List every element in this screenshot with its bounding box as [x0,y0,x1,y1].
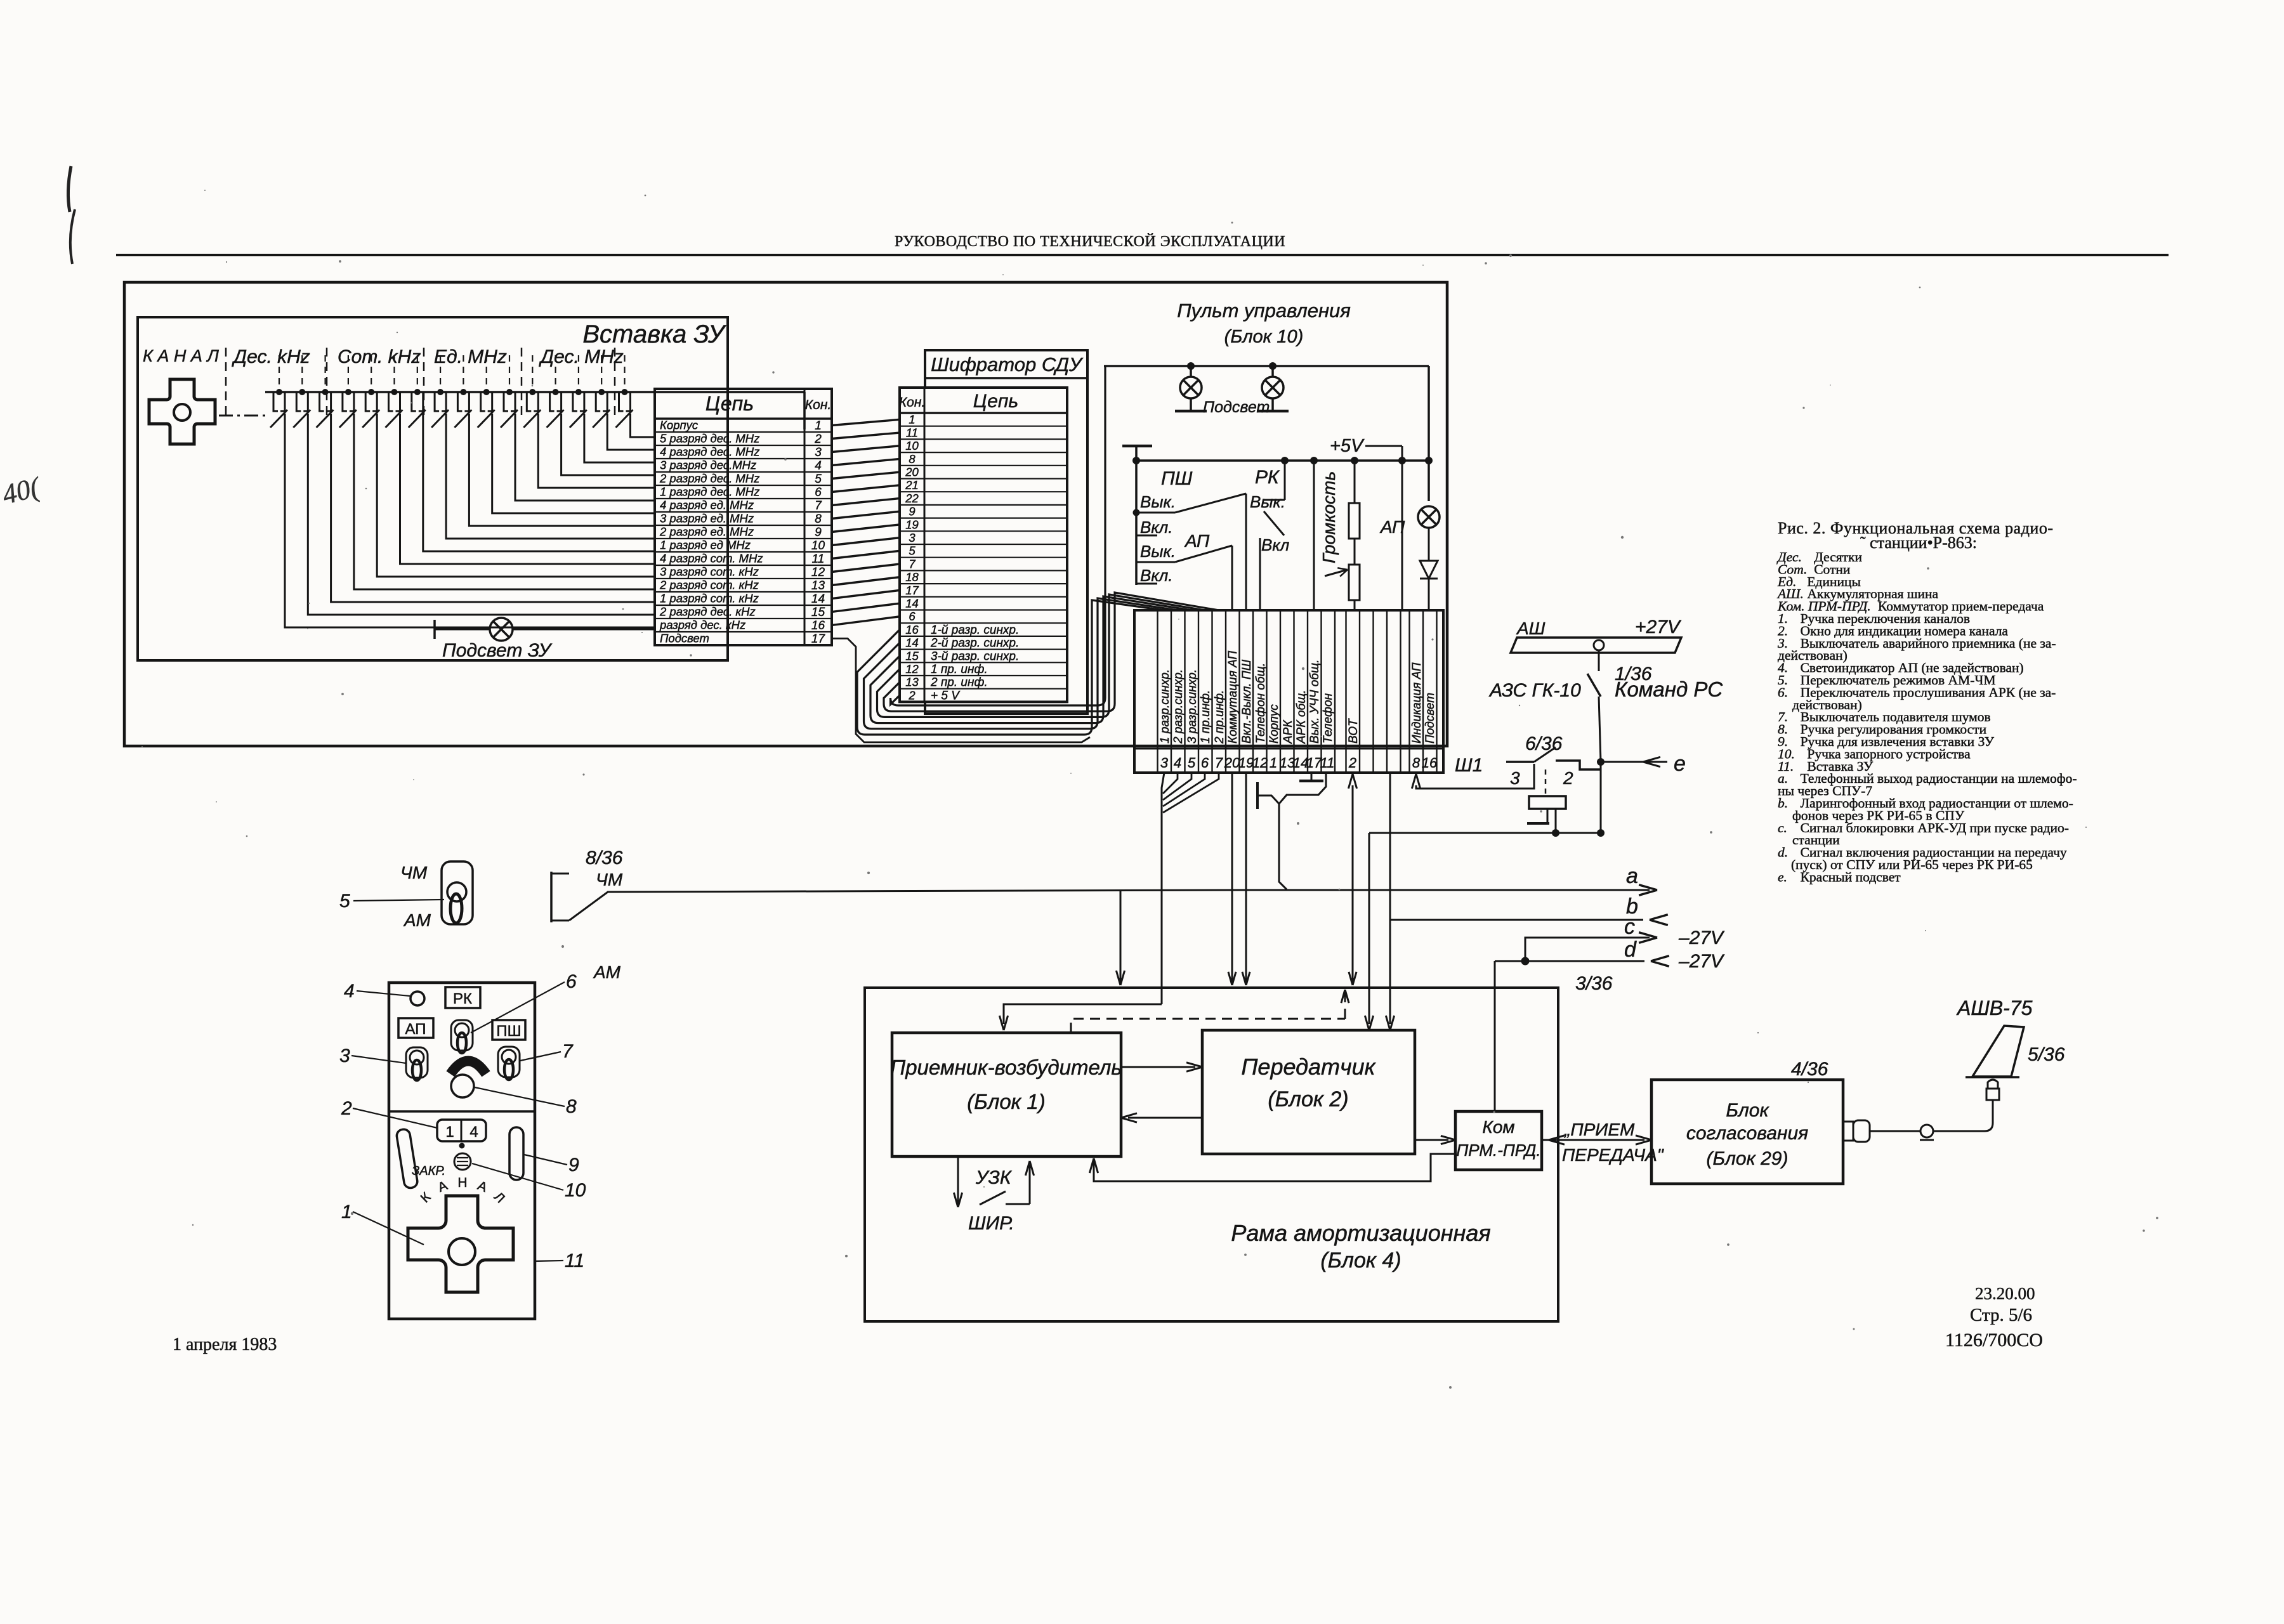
svg-text:2: 2 [908,688,916,702]
svg-text:3: 3 [909,531,916,544]
svg-text:9: 9 [815,526,822,539]
svg-text:6: 6 [1201,755,1209,771]
svg-text:19: 19 [905,518,919,531]
svg-text:3 разряд ед. МНz: 3 разряд ед. МНz [660,512,754,525]
svg-text:Ш1: Ш1 [1455,755,1483,776]
svg-text:1: 1 [445,1123,454,1141]
svg-text:e: e [1674,752,1686,776]
svg-text:Вык.: Вык. [1140,492,1176,511]
svg-text:2 пр. инф.: 2 пр. инф. [930,676,988,690]
svg-text:1 пр. инф.: 1 пр. инф. [931,663,988,676]
svg-text:5: 5 [909,544,916,558]
svg-text:АЗС ГК-10: АЗС ГК-10 [1488,680,1581,701]
svg-text:+ 5 V: + 5 V [931,689,961,702]
svg-text:6: 6 [909,610,916,623]
svg-text:Вкл.-Выкл. ПШ: Вкл.-Выкл. ПШ [1240,659,1254,743]
svg-text:АШ: АШ [1516,619,1546,638]
svg-text:9: 9 [909,505,915,518]
svg-text:4 разряд сот. МНz: 4 разряд сот. МНz [660,552,763,565]
svg-text:c.: c. [1778,820,1787,835]
svg-text:13: 13 [811,579,825,593]
svg-text:Красный подсвет: Красный подсвет [1801,869,1901,884]
svg-text:7: 7 [909,557,916,570]
svg-text:18: 18 [905,570,919,584]
svg-text:3: 3 [1160,755,1169,771]
svg-text:3/36: 3/36 [1575,973,1613,994]
svg-text:10: 10 [811,539,825,553]
svg-text:1: 1 [815,419,822,433]
svg-text:13: 13 [905,676,919,689]
svg-text:АШВ-75: АШВ-75 [1956,997,2033,1019]
svg-text:Передатчик: Передатчик [1241,1054,1376,1080]
svg-text:Вык.: Вык. [1140,542,1176,561]
svg-text:Индикация АП: Индикация АП [1410,662,1424,743]
svg-text:8: 8 [566,1096,577,1117]
svg-text:Кон.: Кон. [805,398,831,412]
svg-text:6: 6 [815,486,822,499]
svg-text:16: 16 [811,619,825,632]
svg-text:22: 22 [905,492,919,505]
svg-text:–27V: –27V [1678,927,1725,948]
svg-text:15: 15 [811,606,825,619]
svg-text:Дес. MHz: Дес. MHz [539,346,624,367]
svg-text:Вык.: Вык. [1250,492,1285,511]
svg-text:2: 2 [341,1098,352,1119]
svg-text:5: 5 [1188,755,1196,771]
svg-text:–27V: –27V [1678,951,1725,972]
svg-text:АП: АП [1379,517,1405,537]
svg-text:b.: b. [1778,796,1788,811]
svg-text:21: 21 [905,478,919,492]
svg-text:10: 10 [565,1180,586,1201]
svg-text:ПЕРЕДАЧА": ПЕРЕДАЧА" [1562,1145,1664,1165]
svg-text:Подсвет: Подсвет [660,632,709,645]
svg-text:12: 12 [1252,755,1268,771]
svg-text:1 пр.инф.: 1 пр.инф. [1199,690,1212,743]
svg-text:Цепь: Цепь [706,392,754,415]
svg-text:˜ станции•Р-863:: ˜ станции•Р-863: [1860,534,1977,552]
svg-text:6: 6 [566,971,577,992]
svg-text:Н: Н [457,1175,467,1190]
svg-text:Корпус: Корпус [1268,704,1281,743]
svg-text:Вставка ЗУ: Вставка ЗУ [582,320,726,348]
svg-text:1 разр.синхр.: 1 разр.синхр. [1158,669,1172,743]
svg-text:Кон.: Кон. [899,395,925,410]
svg-text:Телефон общ.: Телефон общ. [1254,663,1268,743]
svg-text:3: 3 [1510,768,1520,788]
svg-text:2 разряд ед. МНz: 2 разряд ед. МНz [659,525,754,539]
svg-text:3: 3 [815,446,822,459]
svg-text:разряд дес. кНz: разряд дес. кНz [659,619,745,632]
svg-text:12: 12 [905,662,919,676]
svg-text:1126/700СО: 1126/700СО [1945,1330,2043,1351]
svg-text:5 разряд дес. МНz: 5 разряд дес. МНz [660,432,759,445]
svg-text:11: 11 [565,1250,584,1271]
svg-text:3 разр.синхр.: 3 разр.синхр. [1186,669,1199,743]
svg-text:1: 1 [341,1202,352,1222]
svg-text:3: 3 [339,1045,350,1066]
svg-text:4 разряд дес. МНz: 4 разряд дес. МНz [660,445,759,459]
svg-text:2 разряд сот. кНz: 2 разряд сот. кНz [659,579,759,592]
svg-text:1 апреля 1983: 1 апреля 1983 [173,1335,277,1354]
svg-text:Сот. kHz: Сот. kHz [338,346,421,367]
svg-text:+27V: +27V [1635,617,1682,638]
svg-text:АП: АП [405,1021,426,1038]
svg-text:Пульт управления: Пульт управления [1177,299,1351,322]
svg-text:„ПРИЕМ: „ПРИЕМ [1564,1120,1635,1139]
svg-text:Телефон: Телефон [1322,693,1335,743]
svg-text:3 разряд сот. кНz: 3 разряд сот. кНz [660,565,759,579]
svg-text:Стр. 5/6: Стр. 5/6 [1970,1305,2032,1325]
svg-text:5/36: 5/36 [2028,1044,2065,1065]
svg-text:3-й разр. синхр.: 3-й разр. синхр. [931,650,1019,663]
svg-text:1 разряд ед МНz: 1 разряд ед МНz [660,539,751,552]
svg-text:12: 12 [811,566,825,579]
svg-text:8: 8 [815,513,822,526]
svg-text:20: 20 [905,466,919,479]
svg-text:АРК: АРК [1282,719,1295,744]
svg-text:11: 11 [1320,755,1335,771]
svg-text:ЗАКР.: ЗАКР. [412,1164,445,1178]
svg-text:ПРМ.-ПРД.: ПРМ.-ПРД. [1456,1141,1540,1160]
svg-text:3 разряд дес.МНz: 3 разряд дес.МНz [660,459,756,472]
svg-text:2 пр.инф.: 2 пр.инф. [1213,690,1226,744]
svg-text:7: 7 [562,1041,574,1062]
svg-text:4/36: 4/36 [1791,1059,1828,1080]
svg-text:5: 5 [815,473,822,486]
svg-text:8/36: 8/36 [586,848,623,868]
svg-text:ПШ: ПШ [496,1023,521,1040]
svg-text:a: a [1626,864,1638,888]
svg-text:4: 4 [344,981,355,1002]
svg-text:ШИР.: ШИР. [968,1213,1014,1234]
svg-text:17: 17 [905,584,919,597]
svg-text:1-й разр. синхр.: 1-й разр. синхр. [931,624,1019,637]
svg-text:1 разряд дес. МНz: 1 разряд дес. МНz [660,485,759,499]
svg-text:1: 1 [1270,755,1277,771]
svg-text:Ед. MHz: Ед. MHz [434,346,507,367]
svg-text:К А Н А Л: К А Н А Л [143,346,219,365]
svg-text:Коммутация АП: Коммутация АП [1226,651,1240,743]
svg-text:ВОТ: ВОТ [1347,718,1360,743]
svg-text:ЧМ: ЧМ [400,863,428,882]
svg-text:РУКОВОДСТВО ПО ТЕХНИЧЕСКОЙ ЭКС: РУКОВОДСТВО ПО ТЕХНИЧЕСКОЙ ЭКСПЛУАТАЦИИ [895,233,1285,250]
svg-text:Корпус: Корпус [660,419,699,432]
svg-text:Вкл.: Вкл. [1140,518,1173,537]
svg-text:2 разр.синхр.: 2 разр.синхр. [1172,669,1185,744]
svg-text:Команд РС: Команд РС [1615,678,1723,701]
svg-text:Ком: Ком [1482,1117,1514,1137]
svg-text:Вкл: Вкл [1261,535,1290,554]
svg-text:2 разряд дес. кНz: 2 разряд дес. кНz [659,605,756,619]
svg-text:Подсвет ЗУ: Подсвет ЗУ [442,640,553,661]
svg-text:15: 15 [905,649,919,662]
svg-text:(Блок 1): (Блок 1) [967,1090,1046,1113]
svg-text:17: 17 [811,632,826,646]
svg-text:8: 8 [1412,755,1421,771]
svg-text:7: 7 [815,499,822,513]
svg-text:11: 11 [906,426,918,439]
svg-text:Громкость: Громкость [1319,471,1339,563]
svg-text:d: d [1624,938,1637,962]
svg-text:Вых. УЧЧ общ.: Вых. УЧЧ общ. [1308,660,1322,743]
svg-text:АМ: АМ [403,910,431,930]
svg-text:5: 5 [339,891,350,912]
svg-text:6/36: 6/36 [1525,733,1563,754]
svg-text:14: 14 [905,636,919,650]
svg-text:4: 4 [1174,755,1181,771]
svg-text:d.: d. [1778,845,1788,860]
svg-text:2 разряд дес. МНz: 2 разряд дес. МНz [659,472,759,485]
svg-text:РК: РК [1255,467,1280,488]
svg-text:9: 9 [568,1155,579,1175]
svg-text:4 разряд ед. МНz: 4 разряд ед. МНz [660,499,754,512]
svg-text:2: 2 [814,433,822,446]
svg-text:+5V: +5V [1330,436,1365,456]
svg-text:Рама амортизационная: Рама амортизационная [1231,1220,1490,1246]
svg-text:Шифратор СДУ: Шифратор СДУ [931,353,1084,376]
svg-text:7: 7 [1215,755,1223,771]
svg-text:согласования: согласования [1686,1123,1808,1144]
svg-text:c: c [1624,915,1635,939]
svg-text:4: 4 [469,1123,478,1141]
svg-text:ЧМ: ЧМ [596,870,623,889]
svg-text:Вкл.: Вкл. [1140,566,1173,585]
svg-text:Дес. kHz: Дес. kHz [232,346,310,367]
svg-text:(Блок 29): (Блок 29) [1707,1148,1788,1169]
svg-text:1: 1 [909,413,915,426]
svg-text:Сигнал блокировки АРК-УД при: Сигнал блокировки АРК-УД при пуске радио… [1801,820,2069,835]
svg-text:Приемник-возбудитель: Приемник-возбудитель [890,1056,1122,1079]
svg-text:2: 2 [1563,768,1573,788]
svg-text:14: 14 [811,593,825,606]
svg-text:11: 11 [812,553,825,566]
svg-text:РК: РК [453,990,472,1007]
svg-text:10: 10 [905,439,919,452]
svg-text:4: 4 [815,459,822,473]
svg-text:УЗК: УЗК [975,1167,1013,1188]
svg-text:16: 16 [905,623,919,636]
svg-text:АМ: АМ [593,962,621,982]
svg-text:ПШ: ПШ [1161,468,1193,489]
svg-text:(Блок 2): (Блок 2) [1268,1087,1348,1111]
svg-text:(Блок 10): (Блок 10) [1224,327,1304,347]
svg-text:16: 16 [1422,755,1438,771]
svg-text:1 разряд сот. кНz: 1 разряд сот. кНz [660,592,759,605]
svg-text:e.: e. [1778,869,1787,884]
svg-text:6.: 6. [1778,684,1788,700]
svg-text:Цепь: Цепь [973,391,1018,412]
svg-text:19: 19 [1238,755,1254,771]
svg-text:Блок: Блок [1726,1100,1769,1121]
svg-text:(Блок 4): (Блок 4) [1320,1248,1401,1273]
svg-text:Подсвет: Подсвет [1424,693,1437,743]
svg-text:2: 2 [1348,755,1356,771]
svg-text:23.20.00: 23.20.00 [1975,1284,2035,1303]
svg-text:2-й разр. синхр.: 2-й разр. синхр. [930,637,1019,650]
svg-text:8: 8 [909,452,916,466]
svg-text:АП: АП [1184,531,1210,551]
svg-text:14: 14 [905,597,919,610]
svg-text:АРК общ.: АРК общ. [1295,690,1308,744]
svg-text:Подсвет: Подсвет [1203,398,1270,416]
